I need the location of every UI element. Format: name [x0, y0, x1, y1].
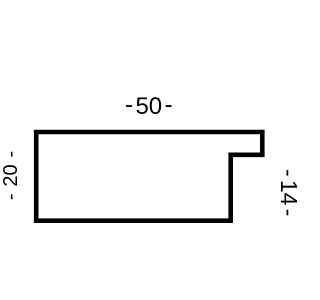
moulding profile outline (cross-section, 50 wide x 20 tall with 14 rabbet step)	[36, 132, 262, 221]
svg-text:- 50 -: - 50 -	[125, 92, 173, 120]
svg-text:- 20 -: - 20 -	[0, 151, 22, 200]
svg-text:- 14 -: - 14 -	[276, 169, 300, 216]
